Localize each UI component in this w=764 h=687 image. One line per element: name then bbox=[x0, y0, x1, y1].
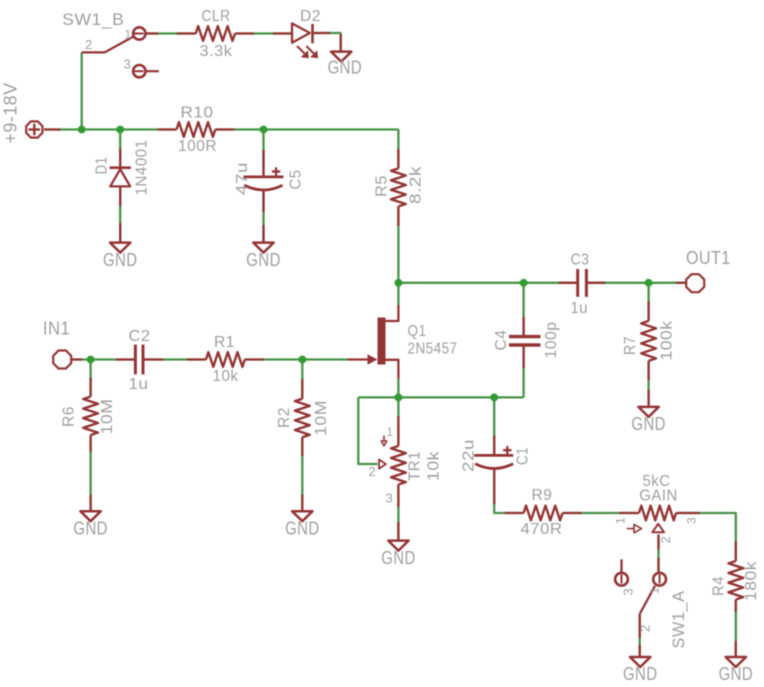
pad IN1 bbox=[53, 351, 71, 369]
svg-text:1N4001: 1N4001 bbox=[134, 140, 151, 196]
LED D2 arrow 2 bbox=[306, 46, 318, 58]
wire R6 to GND bbox=[89, 435, 91, 511]
resistor R9 bbox=[524, 506, 563, 521]
node SW1_B tee bbox=[78, 126, 86, 134]
svg-text:GND: GND bbox=[328, 58, 363, 78]
supply pad +9-18V bbox=[26, 121, 42, 137]
svg-text:R7: R7 bbox=[622, 336, 639, 355]
capacitor C3 bbox=[578, 269, 587, 297]
svg-text:100k: 100k bbox=[659, 320, 676, 361]
svg-text:OUT1: OUT1 bbox=[686, 248, 731, 268]
svg-text:GND: GND bbox=[103, 250, 138, 270]
svg-text:C4: C4 bbox=[493, 330, 510, 351]
svg-text:TR1: TR1 bbox=[407, 451, 424, 481]
switch SW1_B pin1 circle bbox=[133, 27, 145, 39]
resistor R1 bbox=[206, 352, 245, 367]
capacitor C5 (electrolytic) bbox=[244, 167, 284, 190]
wire R9 to GAIN bbox=[563, 512, 640, 514]
wire R7 branch bbox=[647, 283, 649, 321]
wire Q1 source to node bbox=[397, 379, 399, 398]
svg-text:R2: R2 bbox=[276, 407, 293, 428]
svg-text:3: 3 bbox=[124, 57, 132, 72]
wire R4 to GND bbox=[735, 600, 737, 658]
transistor Q1 source lead bbox=[386, 360, 399, 379]
svg-text:GND: GND bbox=[623, 664, 658, 684]
svg-text:3: 3 bbox=[685, 517, 699, 524]
wire C1 to R9 bbox=[494, 469, 523, 514]
wire SW1_A lever to GND bbox=[639, 614, 641, 657]
svg-text:GAIN: GAIN bbox=[639, 488, 678, 505]
LED D2 triangle bbox=[292, 23, 310, 42]
wire D1 branch bottom bbox=[119, 186, 121, 242]
switch SW1_B lever bbox=[82, 36, 134, 52]
wire R7 to GND bbox=[647, 361, 649, 407]
wire GAIN to R4 corner bbox=[676, 513, 736, 561]
svg-text:10k: 10k bbox=[426, 450, 443, 481]
wire SW1_B pin2 branch bbox=[81, 52, 83, 129]
wire D1 branch top bbox=[119, 130, 121, 168]
switch SW1_B pin3 circle bbox=[133, 65, 159, 77]
svg-text:D2: D2 bbox=[300, 8, 321, 25]
wire SW1_B pin1 to CLR bbox=[146, 32, 196, 34]
ground GND (D2) bbox=[331, 52, 351, 62]
node C5 tee bbox=[260, 126, 268, 134]
wire R1 to Q1 gate bbox=[245, 358, 348, 360]
svg-text:10M: 10M bbox=[99, 399, 116, 435]
node R2 tee bbox=[299, 356, 307, 364]
svg-text:22u: 22u bbox=[461, 439, 478, 472]
ground GND (R6) bbox=[80, 511, 100, 521]
resistor R6 bbox=[83, 397, 98, 435]
svg-text:100p: 100p bbox=[543, 322, 560, 359]
wire TR1 wiper loop bbox=[358, 397, 377, 464]
svg-text:R4: R4 bbox=[711, 576, 728, 596]
svg-text:C2: C2 bbox=[129, 328, 151, 345]
svg-text:GND: GND bbox=[73, 519, 108, 539]
transistor Q1 drain lead bbox=[386, 305, 399, 321]
wire R5 to drain node bbox=[397, 206, 399, 282]
svg-text:CLR: CLR bbox=[202, 8, 231, 25]
resistor R5 bbox=[391, 168, 406, 206]
svg-text:2: 2 bbox=[85, 37, 93, 52]
ground GND (C5) bbox=[253, 243, 273, 253]
node drain left bbox=[395, 279, 403, 287]
wire R5 branch top bbox=[397, 130, 399, 169]
wire C4 branch bottom bbox=[522, 347, 524, 398]
pad OUT1 bbox=[686, 274, 704, 292]
svg-text:R1: R1 bbox=[214, 334, 235, 351]
svg-text:2N5457: 2N5457 bbox=[408, 341, 458, 358]
wire TR1 top bbox=[397, 397, 399, 446]
svg-text:180k: 180k bbox=[743, 560, 760, 601]
potentiometer GAIN bbox=[639, 506, 676, 521]
svg-text:1: 1 bbox=[648, 587, 662, 594]
svg-text:C1: C1 bbox=[515, 447, 532, 465]
resistor CLR bbox=[196, 26, 235, 41]
wire +V rail right bbox=[215, 128, 398, 130]
wire CLR to D2 bbox=[235, 32, 291, 34]
node C4 tee bbox=[520, 279, 528, 287]
resistor R2 bbox=[295, 399, 310, 438]
transistor Q1 channel bar bbox=[378, 318, 386, 365]
capacitor C4 bbox=[509, 337, 541, 345]
wire source row bbox=[358, 396, 523, 398]
wire R2 branch bbox=[301, 360, 303, 399]
svg-text:2: 2 bbox=[658, 536, 673, 544]
svg-text:SW1_A: SW1_A bbox=[669, 590, 688, 648]
svg-text:+9-18V: +9-18V bbox=[1, 83, 21, 144]
wire C5 branch top bbox=[262, 130, 264, 177]
wire IN1 row bbox=[72, 358, 134, 360]
node D1 tee bbox=[116, 126, 124, 134]
wire drain row bbox=[398, 282, 577, 284]
resistor R10 bbox=[177, 122, 216, 137]
wire C2 to R1 bbox=[144, 358, 206, 360]
trimmer TR1 adjust arrow bbox=[381, 436, 387, 446]
resistor R4 bbox=[728, 561, 743, 600]
svg-text:GND: GND bbox=[719, 664, 754, 684]
svg-text:SW1_B: SW1_B bbox=[62, 10, 124, 29]
svg-text:100R: 100R bbox=[178, 138, 217, 155]
wire C1 branch bbox=[493, 397, 495, 455]
svg-text:R5: R5 bbox=[374, 175, 391, 197]
svg-text:3.3k: 3.3k bbox=[200, 43, 234, 60]
wire Q1 drain stub bbox=[397, 283, 399, 305]
svg-text:8.2k: 8.2k bbox=[408, 165, 425, 204]
wire drain row right of C3 bbox=[586, 282, 685, 284]
ground GND (D1) bbox=[110, 243, 130, 253]
svg-text:GND: GND bbox=[246, 250, 280, 270]
trimmer TR1 bbox=[391, 446, 406, 485]
svg-text:1u: 1u bbox=[571, 300, 589, 317]
svg-text:1: 1 bbox=[614, 517, 628, 524]
svg-text:R9: R9 bbox=[532, 487, 553, 504]
wire D2 cathode to GND corner bbox=[313, 33, 341, 52]
ground GND (R7) bbox=[638, 407, 658, 417]
diode D1 bbox=[110, 168, 131, 187]
svg-text:GND: GND bbox=[631, 414, 666, 434]
node source bbox=[395, 394, 403, 402]
svg-text:Q1: Q1 bbox=[408, 323, 427, 340]
ground GND (SW1_A) bbox=[630, 657, 650, 667]
wire C4 branch top bbox=[522, 283, 524, 335]
pot GAIN wiper bbox=[652, 524, 664, 533]
svg-text:2: 2 bbox=[369, 464, 377, 479]
wire GAIN wiper to SW1_A bbox=[657, 535, 659, 572]
svg-text:GND: GND bbox=[381, 548, 416, 568]
LED D2 cathode bar bbox=[311, 24, 314, 43]
capacitor C1 (electrolytic) bbox=[474, 446, 513, 469]
svg-text:10k: 10k bbox=[213, 368, 239, 385]
switch SW1_A pin3 circle bbox=[615, 573, 628, 586]
switch SW1_A lever bbox=[640, 586, 655, 614]
node OUT tee bbox=[645, 279, 653, 287]
svg-text:470R: 470R bbox=[521, 521, 563, 538]
wire TR1 bottom to GND bbox=[397, 485, 399, 541]
svg-text:IN1: IN1 bbox=[43, 319, 70, 339]
svg-text:C5: C5 bbox=[288, 170, 305, 190]
trimmer TR1 wiper arrow bbox=[379, 460, 386, 469]
wire R6 branch bbox=[89, 360, 91, 397]
svg-text:R6: R6 bbox=[61, 406, 78, 427]
svg-text:3: 3 bbox=[621, 588, 636, 596]
wire C5 branch bottom bbox=[262, 191, 264, 243]
wire +V rail bbox=[44, 128, 177, 130]
svg-text:10M: 10M bbox=[313, 400, 330, 436]
svg-text:47u: 47u bbox=[234, 162, 251, 195]
svg-text:GND: GND bbox=[285, 519, 320, 539]
wire R2 to GND bbox=[301, 437, 303, 511]
svg-text:1: 1 bbox=[125, 28, 132, 42]
pot GAIN adjust arrow bbox=[627, 524, 642, 532]
svg-text:1u: 1u bbox=[129, 376, 149, 393]
node C1 tee bbox=[490, 394, 498, 402]
svg-text:R10: R10 bbox=[181, 105, 214, 122]
capacitor C2 bbox=[135, 345, 143, 375]
resistor R7 bbox=[641, 321, 656, 361]
svg-text:1: 1 bbox=[387, 425, 394, 439]
ground GND (TR1) bbox=[388, 541, 408, 551]
transistor Q1 gate bbox=[348, 354, 378, 364]
node IN tee bbox=[87, 356, 95, 364]
svg-text:3: 3 bbox=[386, 491, 394, 506]
svg-text:2: 2 bbox=[638, 624, 653, 632]
svg-text:C3: C3 bbox=[571, 252, 590, 269]
svg-text:D1: D1 bbox=[94, 157, 111, 175]
LED D2 arrow 1 bbox=[297, 46, 309, 58]
switch SW1_A pin1 circle bbox=[653, 573, 666, 586]
ground GND (R2) bbox=[292, 511, 312, 521]
ground GND (R4) bbox=[726, 657, 746, 667]
